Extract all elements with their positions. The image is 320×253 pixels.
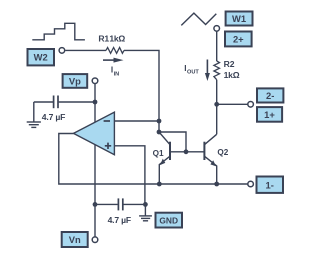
label box W1 bbox=[226, 12, 253, 26]
wire op-amp output loop and emitter rail bbox=[59, 134, 248, 185]
terminal circle W1 bbox=[214, 26, 220, 32]
svg-text:GND: GND bbox=[159, 216, 178, 226]
label box GND bbox=[156, 213, 183, 228]
ground bottom bbox=[139, 204, 152, 220]
ground left bbox=[27, 102, 41, 127]
wire R1 to node column bbox=[124, 50, 159, 132]
terminal circle 1- bbox=[248, 181, 254, 187]
wire bases bbox=[170, 151, 204, 153]
node Vn bypass bbox=[93, 202, 98, 207]
transistor Q1 bbox=[159, 132, 170, 184]
svg-text:Vn: Vn bbox=[69, 234, 81, 245]
capacitor C1 right lead bbox=[59, 101, 95, 103]
svg-text:R2: R2 bbox=[224, 59, 235, 69]
node bases bbox=[184, 149, 189, 154]
node Vp bypass bbox=[93, 100, 98, 105]
terminal circle Vp bbox=[92, 78, 98, 84]
arrow IOUT bbox=[184, 60, 210, 82]
wire noninverting input to ground node bbox=[114, 146, 144, 205]
capacitor C2 plates bbox=[118, 198, 122, 210]
svg-text:2-: 2- bbox=[266, 90, 274, 101]
svg-text:4.7 µF: 4.7 µF bbox=[108, 215, 131, 225]
terminal circle Vn bbox=[92, 237, 98, 243]
node R2 to terminal bbox=[214, 102, 219, 107]
label box 2- bbox=[257, 88, 283, 102]
svg-text:Vp: Vp bbox=[69, 75, 81, 86]
capacitor C1 left lead bbox=[34, 101, 53, 103]
node Q1 collector bbox=[157, 130, 162, 135]
label box W2 bbox=[28, 49, 55, 65]
arrow IIN bbox=[103, 58, 124, 78]
svg-text:Q2: Q2 bbox=[217, 148, 228, 157]
wire inverting input bbox=[114, 120, 159, 122]
svg-text:IN: IN bbox=[114, 71, 120, 77]
label box Vp bbox=[63, 74, 88, 88]
label box 1- bbox=[257, 177, 284, 193]
svg-text:Q1: Q1 bbox=[153, 149, 164, 158]
svg-text:W2: W2 bbox=[34, 52, 48, 63]
resistor R1 bbox=[106, 48, 124, 54]
svg-text:1+: 1+ bbox=[264, 109, 275, 120]
junction node dots bbox=[93, 100, 220, 207]
wire Vp supply column bbox=[94, 84, 96, 237]
capacitor C1 plates bbox=[54, 96, 58, 109]
label box Vn bbox=[62, 232, 88, 247]
label box 2+ bbox=[225, 32, 252, 47]
capacitor C2 left lead bbox=[95, 203, 118, 205]
node Q2 emitter on rail bbox=[214, 182, 219, 187]
node Q1 emitter on rail bbox=[157, 182, 162, 187]
resistor R2 bbox=[214, 61, 220, 80]
stairstep waveform icon bbox=[32, 23, 85, 40]
wire W1 column through R2 to Q2 collector bbox=[216, 31, 218, 61]
open terminal circles bbox=[59, 26, 253, 243]
node GND bbox=[143, 202, 148, 207]
svg-text:1-: 1- bbox=[266, 179, 274, 190]
label box 1+ bbox=[257, 107, 282, 122]
svg-text:OUT: OUT bbox=[187, 70, 199, 76]
svg-text:1kΩ: 1kΩ bbox=[224, 70, 240, 80]
svg-text:2+: 2+ bbox=[233, 34, 244, 45]
capacitor C2 right lead bbox=[123, 203, 145, 205]
terminal circle W2 bbox=[59, 48, 65, 54]
svg-text:4.7 µF: 4.7 µF bbox=[42, 112, 65, 122]
op-amp U1 bbox=[74, 112, 115, 155]
triangle waveform icon bbox=[181, 13, 216, 25]
svg-text:W1: W1 bbox=[232, 13, 246, 24]
wire node to 2-/1+ terminal bbox=[217, 103, 248, 105]
wire W2 to R1 bbox=[65, 49, 106, 51]
transistor Q2 bbox=[204, 134, 216, 184]
node inverting input bbox=[157, 119, 162, 124]
svg-text:R1 1kΩ: R1 1kΩ bbox=[98, 33, 125, 43]
terminal circle 2-/1+ bbox=[248, 102, 254, 108]
wire Q1 collector to bases bbox=[159, 132, 186, 152]
